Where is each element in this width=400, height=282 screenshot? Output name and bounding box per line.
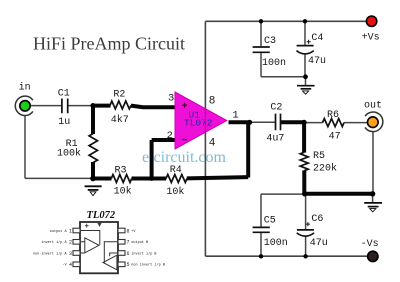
svg-text:8: 8 [127, 228, 130, 234]
svg-text:-V: -V [62, 264, 67, 268]
svg-text:1u: 1u [58, 117, 70, 128]
wire: C3-C4 ground rail [261, 76, 306, 78]
input connector ring [15, 96, 33, 115]
IC pin numbers left [69, 228, 72, 268]
svg-text:output A: output A [50, 230, 68, 234]
svg-text:R5: R5 [313, 151, 325, 162]
IC pin stubs left [73, 228, 80, 266]
wire: C3 bottom stem [260, 53, 262, 77]
capacitor C1 1u [62, 99, 68, 114]
svg-text:47u: 47u [310, 238, 328, 249]
IC pin stubs right [118, 228, 125, 266]
svg-text:47: 47 [329, 132, 341, 143]
wire: R5 junction to out-ground (thick) [303, 192, 373, 196]
IC plus mark [85, 224, 89, 228]
wire: C2 to R5 junction (thick) [281, 120, 304, 124]
resistor R4 10k [166, 175, 187, 183]
faint pin8-pin4 line over triangle [204, 109, 206, 132]
IC wire non-invert B [117, 263, 118, 265]
IC wire invert B [110, 253, 118, 256]
svg-text:in: in [19, 82, 31, 94]
wire: C1 to junction [68, 105, 93, 107]
capacitor C3 100n [253, 47, 270, 52]
wire: junction down to R1 (thick) [91, 104, 95, 134]
wire: junction down to R5 (thick) [302, 122, 306, 152]
resistor R1 100k (vertical) [89, 134, 97, 163]
svg-text:R4: R4 [170, 165, 182, 176]
wire: pin1 output (thick) [229, 120, 251, 124]
wire: out connector stem [372, 132, 374, 194]
wire: feedback vertical (thick) [246, 122, 250, 177]
svg-text:+Vs: +Vs [362, 33, 380, 44]
wire: ground junction to R3 (thick) [92, 177, 112, 181]
svg-text:C3: C3 [264, 36, 276, 47]
svg-text:out: out [364, 101, 382, 112]
svg-text:3: 3 [168, 92, 174, 104]
svg-text:C4: C4 [311, 33, 323, 44]
+Vs terminal [366, 16, 376, 26]
wire: C6 bottom stem [305, 236, 307, 256]
svg-text:7: 7 [127, 240, 130, 246]
wire: R6 to out [344, 122, 367, 124]
resistor R6 47 [323, 119, 345, 127]
svg-text:100n: 100n [262, 58, 286, 69]
svg-text:5: 5 [127, 262, 130, 268]
wire: R4 to feedback corner (thick) [187, 177, 248, 178]
resistor R5 220k (vertical) [300, 152, 308, 170]
svg-text:R3: R3 [115, 166, 127, 177]
svg-text:10k: 10k [114, 185, 132, 197]
svg-text:2: 2 [167, 130, 173, 142]
wire: C5 bottom stem [260, 233, 262, 257]
wire: R1 to ground rail (thick) [91, 162, 95, 179]
IC pin numbers right [127, 228, 130, 268]
svg-text:R2: R2 [113, 89, 125, 100]
junction dots [90, 103, 95, 108]
svg-text:+V: +V [131, 230, 136, 234]
wire: C4 top stem [304, 21, 306, 45]
op-amp minus input mark [182, 139, 187, 141]
output connector ring [365, 112, 383, 132]
ground G2 (C3/C4) [297, 86, 315, 95]
IC body [80, 222, 118, 273]
svg-text:4u7: 4u7 [266, 134, 284, 145]
svg-text:100n: 100n [264, 238, 288, 249]
svg-text:elcircuit.com: elcircuit.com [142, 149, 227, 166]
wire: C5-C6 top rail [261, 193, 304, 195]
svg-text:C6: C6 [311, 214, 323, 225]
svg-text:C2: C2 [270, 102, 282, 113]
wire: R5 to bottom junction (thick) [302, 170, 306, 193]
svg-text:4k7: 4k7 [111, 114, 129, 126]
wire: C3 top stem [260, 21, 262, 46]
svg-text:1: 1 [232, 109, 238, 121]
wire: C5 top stem [260, 194, 262, 227]
capacitor C4 47u (electrolytic) [297, 45, 314, 47]
svg-text:C5: C5 [264, 215, 276, 226]
IC wire inputs A [80, 242, 85, 253]
IC pin labels right [131, 230, 165, 268]
svg-text:4: 4 [209, 138, 216, 150]
wire: ground G2 stem [305, 77, 307, 86]
C6 plus mark [306, 222, 310, 226]
svg-text:2: 2 [69, 240, 72, 246]
wire: junction to R6 [304, 122, 323, 124]
IC wire output A [80, 231, 100, 245]
wire: in ground rail [25, 177, 93, 179]
output connector orange dot [368, 117, 379, 128]
svg-text:3: 3 [69, 251, 72, 257]
svg-text:non invert i/p B: non invert i/p B [131, 263, 165, 268]
IC pin labels left [33, 230, 68, 268]
capacitor C5 100n [253, 227, 270, 232]
IC internal op-amp B [103, 255, 117, 270]
svg-text:10k: 10k [166, 186, 184, 198]
wire: C4 bottom stem [304, 55, 306, 77]
svg-text:8: 8 [209, 96, 216, 108]
wire: R3 to R4 (thick) [132, 177, 167, 181]
op-amp U1 TL072 triangle [175, 92, 227, 149]
wire: R2 to pin3 (thick) [131, 106, 176, 108]
svg-text:invert i/p B: invert i/p B [131, 251, 156, 256]
input connector green dot [20, 101, 30, 111]
wire: junction to R2 (thick) [92, 104, 111, 108]
svg-text:TL072: TL072 [184, 118, 213, 129]
svg-text:100k: 100k [57, 148, 81, 160]
svg-text:non-invert i/p A: non-invert i/p A [33, 251, 68, 256]
op-amp plus input mark [182, 103, 187, 108]
svg-text:invert i/p A: invert i/p A [41, 240, 67, 245]
svg-text:HiFi PreAmp Circuit: HiFi PreAmp Circuit [33, 34, 185, 54]
wire: in to C1 [31, 105, 62, 107]
svg-text:220k: 220k [313, 163, 337, 175]
svg-text:R6: R6 [327, 110, 339, 121]
svg-text:C1: C1 [58, 88, 70, 99]
svg-text:output B: output B [131, 241, 148, 245]
resistor R2 4k7 [110, 101, 131, 109]
ground G1 (input/R1) [85, 186, 102, 195]
IC internal op-amp A [85, 238, 99, 253]
svg-text:4: 4 [69, 262, 72, 268]
svg-text:-Vs: -Vs [361, 239, 379, 250]
IC notch marker [97, 223, 101, 227]
wire: ground G3 stem [372, 194, 374, 203]
svg-text:1: 1 [69, 228, 72, 234]
capacitor C6 47u (electrolytic) [297, 229, 314, 231]
ground G3 (out/R5) [364, 203, 382, 212]
wire: pin8/pin4 vertical line [204, 21, 206, 256]
wire: top +Vs rail [205, 20, 366, 22]
svg-text:47u: 47u [308, 56, 326, 67]
wire: -Vs bottom rail [205, 255, 367, 257]
wire: pin2 vertical (thick) [150, 140, 154, 179]
-Vs terminal [368, 251, 378, 261]
wire: in connector stem [24, 115, 26, 178]
capacitor C2 4u7 [276, 114, 281, 131]
svg-text:6: 6 [127, 251, 130, 257]
resistor R3 10k [111, 175, 131, 183]
wire: junction to C2 [249, 121, 274, 123]
IC wire output B [103, 242, 118, 263]
wire: C6 top stem [305, 194, 307, 229]
wire: pin2 horizontal (thick) [152, 138, 177, 142]
svg-text:TL072: TL072 [87, 210, 116, 221]
C4 plus mark [307, 40, 311, 44]
